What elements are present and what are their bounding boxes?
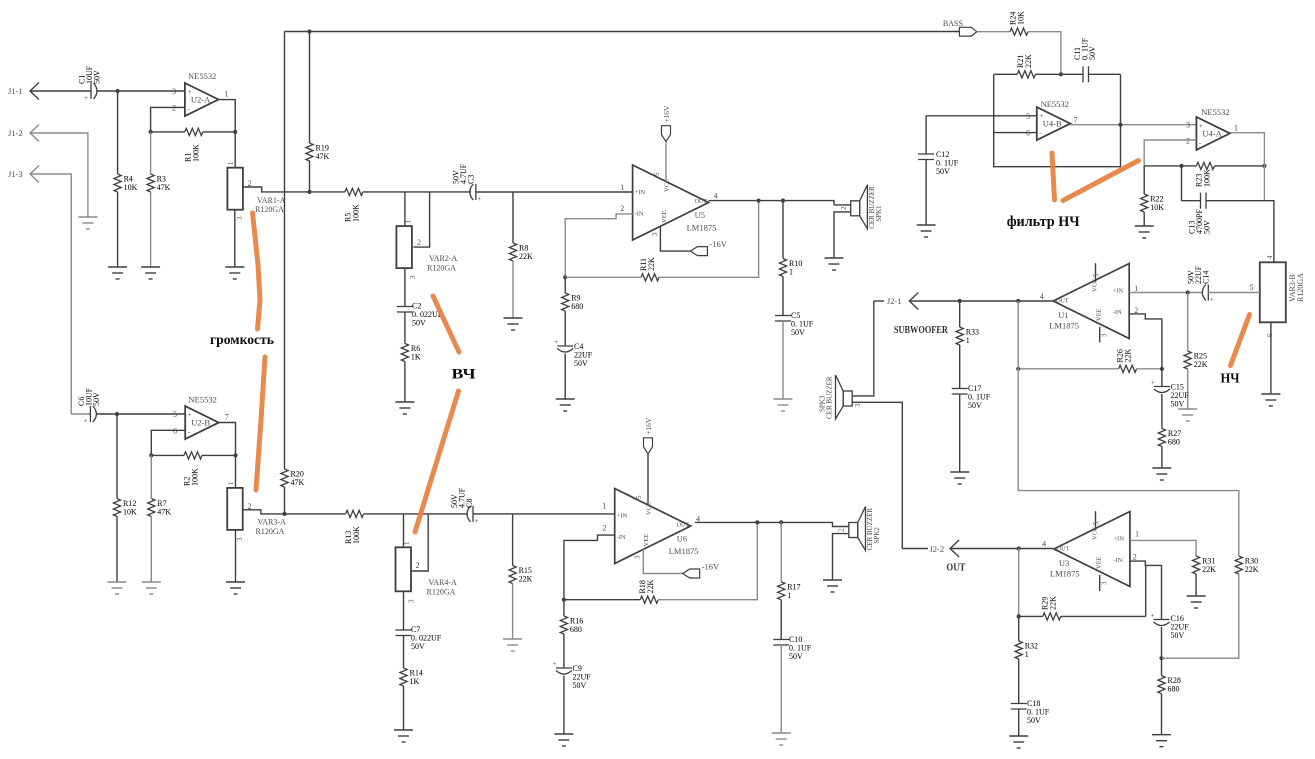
wire to C13 — [1182, 166, 1201, 201]
capacitor C1 10UF 50V — [91, 83, 97, 99]
capacitor C14 22UF 50V — [1202, 285, 1208, 301]
svg-text:50V: 50V — [1027, 716, 1041, 725]
wire R32 to C18 — [1018, 659, 1020, 704]
wire J1-3 to C6 — [30, 174, 71, 414]
junction output/feedback U6 — [755, 520, 759, 524]
wire C10 to ground — [780, 645, 782, 733]
wire R5 to C3 — [363, 191, 471, 193]
svg-text:U6: U6 — [677, 534, 687, 544]
capacitor C9 22UF 50V — [556, 668, 572, 674]
wire U1 pin1 to C14 — [1129, 292, 1203, 294]
potentiometer VAR4-A — [396, 547, 412, 591]
wire U2-B output to VAR3-A — [219, 423, 236, 488]
wire VEE stub U1 — [1099, 327, 1101, 343]
svg-text:50V: 50V — [791, 328, 805, 337]
svg-text:50V: 50V — [968, 401, 982, 410]
wire VEE U6 to -16V — [643, 549, 682, 574]
svg-text:J1-1: J1-1 — [8, 86, 23, 96]
svg-text:5: 5 — [1093, 521, 1101, 525]
capacitor C11 0.1UF 50V — [1083, 66, 1089, 82]
svg-text:U4-A: U4-A — [1202, 128, 1222, 138]
svg-text:2: 2 — [172, 104, 176, 113]
junction R26 branch — [1016, 367, 1020, 371]
svg-text:3: 3 — [1186, 121, 1190, 130]
annotation line фильтр diagonal — [1063, 161, 1139, 201]
power flag +16V U6 — [644, 438, 653, 454]
ground J1-2 — [78, 217, 97, 229]
wire R19 bottom — [309, 161, 311, 192]
junction U1 output branch — [1016, 299, 1020, 303]
svg-text:VCC: VCC — [646, 502, 653, 515]
svg-text:50V: 50V — [411, 642, 425, 651]
svg-text:4: 4 — [1266, 255, 1274, 259]
wire R12 top — [116, 414, 118, 499]
wire R7 to ground — [150, 517, 152, 583]
junction R24/R21/C11 — [1059, 72, 1063, 76]
wire VCC U5 — [665, 142, 667, 182]
svg-text:680: 680 — [1168, 438, 1180, 447]
svg-text:3: 3 — [651, 232, 659, 236]
ground R4 — [108, 267, 127, 279]
svg-text:5: 5 — [653, 172, 661, 176]
svg-text:22K: 22K — [1049, 596, 1058, 610]
wire R2 to output — [202, 454, 236, 456]
resistor R12 10K — [113, 499, 120, 517]
ground VAR3-A — [226, 582, 245, 594]
wire C16 down — [1161, 627, 1163, 658]
resistor R9 680 — [562, 293, 569, 311]
wire VEE stub U3 — [1099, 575, 1101, 591]
junction U3 output branch — [1017, 546, 1021, 550]
svg-text:3: 3 — [1101, 581, 1109, 585]
svg-text:J2-1: J2-1 — [887, 296, 902, 306]
annotation line громкость lower — [256, 357, 265, 490]
wire BASS to R24 — [977, 31, 1010, 33]
svg-text:6: 6 — [1266, 333, 1274, 337]
wire U2-A pin2 feedback — [151, 107, 185, 131]
wire C1 to U2-A pin3 — [97, 90, 185, 92]
resistor R21 22K — [1017, 71, 1035, 78]
capacitor C12 0.1UF 50V — [918, 154, 934, 160]
svg-text:+16V: +16V — [662, 105, 671, 123]
junction bus/R19 — [307, 29, 311, 33]
wire R14 to ground — [403, 686, 405, 730]
wire to R30 bottom — [1162, 574, 1239, 658]
junction output/R10 — [781, 199, 785, 203]
svg-text:U1: U1 — [1058, 310, 1068, 320]
svg-text:50V: 50V — [1203, 220, 1212, 234]
svg-text:3: 3 — [236, 537, 244, 541]
svg-text:3: 3 — [172, 87, 176, 96]
svg-text:NE5532: NE5532 — [1041, 99, 1069, 109]
svg-text:U3: U3 — [1059, 558, 1069, 568]
svg-text:2: 2 — [838, 528, 846, 532]
wire R33 to C17 — [959, 345, 961, 389]
wire R11 to U5 output — [659, 201, 759, 278]
svg-text:VEE: VEE — [643, 534, 650, 547]
svg-text:1: 1 — [227, 481, 235, 485]
ground SPK2 — [823, 580, 842, 592]
svg-text:22K: 22K — [1245, 565, 1259, 574]
resistor R17 1 — [778, 582, 785, 600]
op-amp U2-A — [185, 83, 219, 116]
junction R25 — [1186, 290, 1190, 294]
resistor R13 100K — [346, 510, 364, 517]
wire J1-2 to ground — [30, 133, 88, 217]
svg-text:1: 1 — [789, 268, 793, 277]
svg-text:-IN: -IN — [635, 211, 644, 218]
wire VCC stub U1 — [1095, 263, 1097, 281]
svg-text:1: 1 — [227, 161, 235, 165]
ground VAR3-B — [1261, 394, 1280, 406]
wire R13 to C8 — [364, 513, 468, 515]
svg-text:1K: 1K — [410, 677, 420, 686]
resistor R30 22K — [1235, 556, 1242, 574]
svg-text:3: 3 — [409, 275, 417, 279]
svg-text:100K: 100K — [192, 144, 201, 162]
wire SPK3 to J2-2 — [852, 402, 928, 548]
resistor R11 22K — [641, 274, 659, 281]
wire to VAR4-A pin2 — [412, 514, 428, 571]
wire U3 pin2 to C16 — [1130, 561, 1162, 619]
svg-text:J1-2: J1-2 — [8, 128, 23, 138]
svg-text:1: 1 — [405, 220, 413, 224]
wire branch to R26 — [1018, 368, 1118, 370]
wire VAR2-A pin3 to C2 — [404, 268, 406, 306]
svg-text:VAR1-A: VAR1-A — [257, 196, 286, 205]
svg-text:VEE: VEE — [1096, 308, 1103, 321]
svg-text:680: 680 — [1168, 685, 1180, 694]
svg-text:NE5532: NE5532 — [1201, 107, 1229, 117]
resistor R8 22K — [509, 243, 516, 261]
wire VAR3-A wiper to R13 — [243, 510, 346, 514]
wire U4-A output down — [1230, 133, 1265, 201]
op-amp U4-A — [1196, 117, 1230, 150]
wire to VAR4-A pin1 — [403, 514, 405, 547]
ground VAR1-A — [225, 267, 244, 279]
wire R9 to C4 — [564, 311, 566, 346]
wire U5 pin2 to feedback node — [565, 214, 632, 277]
svg-text:CER BUZZER: CER BUZZER — [826, 376, 834, 419]
ground R6 — [395, 402, 414, 414]
wire R32 node to R29 — [1019, 615, 1043, 617]
wire U6 pin2 to feedback node — [564, 535, 615, 600]
capacitor C8 4.7UF 50V — [467, 506, 473, 522]
resistor R18 22K — [640, 596, 658, 603]
resistor R28 680 — [1158, 676, 1165, 694]
svg-text:R120GA: R120GA — [427, 588, 456, 597]
svg-text:100K: 100K — [352, 526, 361, 544]
svg-text:фильтр НЧ: фильтр НЧ — [1007, 214, 1080, 230]
svg-text:OUT: OUT — [1056, 299, 1069, 305]
wire R28 to ground — [1161, 694, 1163, 735]
svg-text:22K: 22K — [1124, 349, 1133, 363]
svg-text:LM1875: LM1875 — [1050, 569, 1080, 579]
wire R7 top — [150, 455, 152, 498]
svg-text:7: 7 — [225, 413, 229, 422]
svg-text:J1-3: J1-3 — [8, 169, 23, 179]
svg-text:+IN: +IN — [1113, 288, 1124, 295]
wire VCC U6 — [647, 454, 649, 504]
wire to R22 — [1143, 166, 1145, 194]
power amp U3 — [1050, 512, 1130, 587]
svg-text:-IN: -IN — [1113, 557, 1122, 564]
junction C6/R12 — [115, 412, 119, 416]
svg-text:-IN: -IN — [617, 534, 626, 541]
svg-text:5: 5 — [635, 495, 643, 499]
svg-text:R120GA: R120GA — [1296, 273, 1305, 302]
svg-text:50V: 50V — [573, 681, 587, 690]
speaker SPK3 — [836, 375, 853, 419]
wire to R32 — [1018, 616, 1020, 641]
wire R10 to C5 — [782, 277, 784, 316]
wire pin2 to R29 — [1145, 565, 1147, 616]
resistor R3 47K — [147, 174, 154, 192]
wire R15 to ground — [512, 584, 514, 640]
potentiometer VAR1-A — [227, 168, 243, 210]
ground C9 — [554, 734, 573, 746]
wire R4 top — [117, 91, 119, 174]
resistor R19 47K — [306, 143, 313, 161]
wire C3 to U5 pin1 — [476, 191, 633, 193]
wire C7 to R14 — [403, 636, 405, 669]
wire bus vertical to R20 — [284, 32, 286, 470]
wire VEE U5 to -16V — [660, 226, 690, 251]
svg-text:+: + — [1151, 612, 1155, 620]
wire J2-1 to U1 output — [909, 300, 1053, 302]
resistor R23 100K — [1196, 162, 1214, 169]
wire to R17 — [780, 522, 782, 581]
wire to R25 — [1187, 293, 1189, 352]
ground R15 — [503, 639, 522, 651]
resistor R16 680 — [560, 616, 567, 634]
svg-text:5: 5 — [1250, 283, 1254, 292]
wire R24 to filter node — [1028, 32, 1061, 75]
svg-text:VCC: VCC — [664, 179, 671, 192]
svg-text:50V: 50V — [789, 652, 803, 661]
junction R3/R1 feedback — [149, 130, 153, 134]
wire U2-A output to VAR1-A — [219, 100, 236, 168]
svg-text:OUT: OUT — [946, 562, 966, 574]
svg-text:100K: 100K — [191, 468, 200, 486]
wire C8 to U6 pin1 — [473, 513, 615, 515]
svg-text:SUBWOOFER: SUBWOOFER — [894, 324, 949, 336]
wire U6 output to SPK2 — [695, 522, 849, 526]
ground C10 — [772, 733, 791, 745]
wire R17 to C10 — [780, 600, 782, 640]
svg-text:50V: 50V — [1171, 400, 1185, 409]
wire R31 to ground — [1195, 574, 1197, 596]
capacitor C6 10UF 50V — [90, 406, 96, 422]
capacitor C18 0.1UF 50V — [1011, 704, 1027, 710]
connector J2-2 arrow — [950, 540, 959, 557]
svg-text:+: + — [1151, 379, 1155, 387]
connector J1-3 arrow — [30, 166, 39, 183]
svg-text:C14: C14 — [1202, 271, 1211, 284]
wire R23 to output — [1214, 165, 1264, 167]
wire pin2 node to R23 — [1144, 165, 1196, 167]
wire C5 to ground — [782, 321, 784, 399]
junction R20/signal — [282, 512, 286, 516]
svg-text:1: 1 — [787, 591, 791, 600]
wire to R8 — [512, 192, 514, 243]
svg-text:+16V: +16V — [644, 417, 653, 435]
svg-text:U2-B: U2-B — [191, 418, 210, 428]
svg-text:2: 2 — [1133, 553, 1137, 562]
wire to R33 — [959, 301, 961, 327]
svg-text:22K: 22K — [519, 575, 533, 584]
power flag +16V U5 — [662, 126, 671, 142]
wire to R2 — [151, 454, 184, 456]
ground C17 — [950, 472, 969, 484]
wire VAR1-A wiper to R5 — [243, 187, 345, 192]
wire R21 to C11 — [1035, 73, 1083, 75]
svg-text:47K: 47K — [157, 183, 171, 192]
ground R31 — [1187, 596, 1206, 608]
svg-text:R120GA: R120GA — [256, 527, 285, 536]
wire to VAR2-A pin2 — [413, 192, 429, 247]
svg-text:НЧ: НЧ — [1221, 372, 1241, 387]
wire U1 output to R30 — [1018, 301, 1239, 556]
wire C11 to output node — [1089, 73, 1121, 75]
capacitor C7 0.022UF 50V — [396, 630, 412, 636]
wire J2-2 to U3 output — [950, 548, 1053, 550]
wire R4 to ground — [117, 192, 119, 267]
svg-text:680: 680 — [571, 302, 583, 311]
wire feedback loop U4-B — [994, 74, 1121, 166]
svg-text:7: 7 — [1074, 116, 1078, 125]
resistor R31 22K — [1193, 556, 1200, 574]
wire SPK2 to ground — [833, 534, 849, 580]
wire C2 to R6 — [404, 312, 406, 344]
wire feedback node to R18 — [564, 599, 640, 601]
svg-text:10K: 10K — [1017, 11, 1026, 25]
svg-text:громкость: громкость — [210, 333, 275, 348]
resistor R1 100K — [185, 128, 203, 135]
svg-text:+: + — [477, 195, 481, 203]
wire C12 to ground — [925, 160, 927, 226]
junction R7/R2 — [149, 453, 153, 457]
ground R3 — [141, 267, 160, 279]
svg-text:22K: 22K — [1194, 360, 1208, 369]
wire feedback node to R16 — [563, 600, 565, 616]
svg-text:-16V: -16V — [702, 562, 720, 572]
capacitor C10 0.1UF 50V — [773, 640, 789, 646]
svg-text:OUT: OUT — [1057, 547, 1070, 553]
svg-text:ВЧ: ВЧ — [452, 367, 476, 383]
power amp U1 — [1049, 264, 1129, 339]
resistor R10 1 — [779, 259, 786, 277]
wire VAR1-A pin3 to ground — [234, 210, 236, 267]
junction C1/R4 — [116, 89, 120, 93]
ground C18 — [1009, 736, 1028, 748]
svg-text:1: 1 — [403, 541, 411, 545]
svg-text:4: 4 — [714, 192, 718, 201]
svg-text:1: 1 — [966, 336, 970, 345]
wire U4-B output to U4-A pin3 — [1070, 124, 1196, 126]
svg-text:50V: 50V — [93, 70, 102, 84]
power amp U5 — [633, 165, 717, 240]
svg-text:2: 2 — [840, 206, 848, 210]
wire U3 pin1 to R31 — [1130, 540, 1196, 556]
wire C14 to VAR3-B pin5 — [1208, 292, 1260, 294]
svg-text:100K: 100K — [1203, 169, 1212, 187]
resistor R14 1K — [400, 668, 407, 686]
svg-text:3: 3 — [854, 403, 862, 407]
connector J1-2 arrow — [30, 125, 39, 142]
resistor R7 47K — [148, 499, 155, 517]
wire to VAR2-A pin1 — [404, 192, 406, 226]
wire R8 to ground — [512, 261, 514, 318]
wire U2-B pin6 — [151, 430, 185, 455]
svg-text:4: 4 — [1042, 540, 1046, 549]
junction C13 branch — [1179, 164, 1183, 168]
wire VCC stub U3 — [1095, 511, 1097, 529]
power amp U6 — [615, 489, 699, 564]
svg-text:2: 2 — [620, 204, 624, 213]
svg-text:47K: 47K — [157, 508, 171, 517]
wire feedback node to R9 — [564, 277, 566, 293]
svg-text:2: 2 — [417, 238, 421, 247]
wire to SPK3 — [852, 301, 874, 396]
svg-text:VAR3-A: VAR3-A — [258, 518, 287, 527]
wire feedback to R1 — [151, 131, 185, 133]
wire R19 top — [309, 32, 311, 144]
wire R3 top — [150, 132, 152, 174]
potentiometer VAR2-A — [396, 226, 412, 268]
svg-text:22K: 22K — [519, 252, 533, 261]
svg-text:3: 3 — [1101, 333, 1109, 337]
svg-text:BASS: BASS — [943, 19, 963, 28]
wire to C6 — [71, 413, 90, 415]
wire feedback node to R11 — [565, 276, 641, 278]
ground C12 — [917, 225, 936, 237]
wire filter box to R21 — [994, 73, 1018, 75]
speaker SPK2 — [849, 507, 866, 551]
svg-text:U2-A: U2-A — [191, 95, 211, 105]
wire C9 to ground — [563, 676, 565, 735]
svg-text:4: 4 — [1040, 292, 1044, 301]
svg-text:1K: 1K — [411, 353, 421, 362]
wire C17 to ground — [959, 394, 961, 472]
svg-text:OUT: OUT — [695, 199, 708, 205]
capacitor C16 22UF 50V — [1154, 620, 1170, 626]
resistor R24 10K — [1010, 28, 1028, 35]
connector J2-1 arrow — [909, 293, 918, 310]
svg-text:50V: 50V — [936, 167, 950, 176]
annotation line фильтр vertical — [1052, 153, 1055, 200]
svg-text:R120GA: R120GA — [255, 205, 284, 214]
svg-text:C3: C3 — [467, 175, 476, 184]
resistor R25 22K — [1184, 351, 1191, 369]
junction R29/R32 — [1017, 614, 1021, 618]
power flag -16V U6 — [683, 569, 700, 578]
svg-text:2: 2 — [416, 561, 420, 570]
wire top bus BASS — [285, 31, 960, 33]
svg-text:+: + — [553, 660, 557, 668]
wire R29 to pin2 node — [1061, 615, 1146, 617]
svg-text:1: 1 — [1135, 530, 1139, 539]
svg-text:+: + — [84, 94, 88, 102]
connector J1-1 arrow — [30, 83, 39, 100]
svg-text:LM1875: LM1875 — [669, 546, 699, 556]
ground R25 — [1178, 409, 1197, 421]
wire U1 pin2 to C15 — [1129, 314, 1162, 387]
resistor R27 680 — [1158, 429, 1165, 447]
resistor R29 22K — [1043, 613, 1061, 620]
ground C5 — [774, 399, 793, 411]
svg-text:3: 3 — [236, 216, 244, 220]
